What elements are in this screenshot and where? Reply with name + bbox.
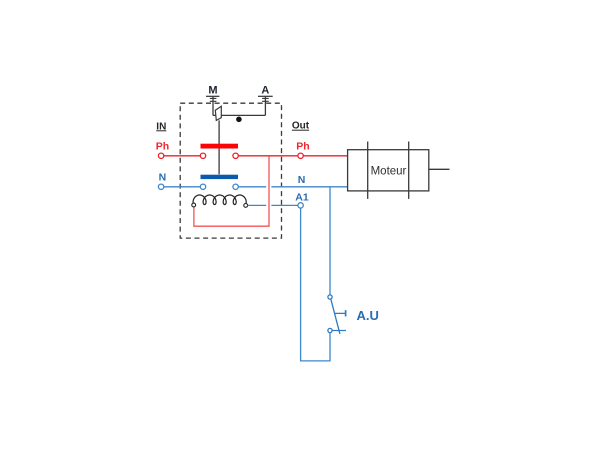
main contact N (blue bar) [201, 175, 239, 179]
wire N branch down to A.U [329, 187, 331, 295]
wire N to motor (left of crossing) [238, 186, 266, 188]
node Ph-out terminal [298, 153, 303, 158]
svg-text:A.U: A.U [357, 308, 379, 323]
mechanical link wire M-A [213, 114, 265, 116]
svg-text:Ph: Ph [296, 140, 309, 152]
wire Ph to motor [303, 155, 347, 157]
moving contact blade (parallelogram) [215, 106, 221, 120]
push button A cap line [258, 95, 273, 97]
node N contact right [233, 184, 238, 189]
node Ph-in terminal [158, 153, 163, 158]
node N contact left [200, 184, 205, 189]
motor bar 2 [408, 142, 410, 199]
wire coil to A1 (left of crossing) [248, 204, 267, 206]
svg-text:Ph: Ph [156, 140, 169, 152]
main contact Ph (red bar) [201, 144, 239, 149]
switch A.U blade [331, 299, 340, 334]
svg-text:A1: A1 [295, 191, 309, 203]
svg-text:Moteur: Moteur [371, 166, 407, 178]
node Ph contact right [233, 153, 238, 158]
node Ph contact left [200, 153, 205, 158]
node N-in terminal [158, 184, 163, 189]
switch A.U fixed contact line [332, 330, 346, 332]
contactor enclosure (dashed box) [180, 103, 281, 238]
svg-text:IN: IN [156, 121, 166, 132]
wire Ph branch to coil [194, 156, 269, 226]
push button M ticks [210, 97, 217, 99]
switch A.U upper node [328, 295, 332, 299]
wire Ph-in [164, 155, 201, 157]
coil KM1 loops [193, 195, 246, 205]
wire A.U return loop [301, 208, 330, 361]
switch A.U actuator [335, 310, 346, 316]
contactor actuator wire (vertical) [218, 120, 220, 174]
wire N-in [164, 186, 201, 188]
coil left terminal node [192, 203, 196, 207]
motor bar 1 [367, 142, 369, 199]
svg-text:N: N [159, 171, 167, 183]
push button M stem wire [212, 97, 214, 116]
switch A.U lower node [328, 328, 332, 332]
svg-text:N: N [298, 174, 306, 186]
node A1 terminal [298, 203, 303, 208]
wire Ph-out [238, 155, 298, 157]
svg-text:A: A [261, 85, 269, 97]
svg-text:M: M [208, 85, 217, 97]
push button M cap line [206, 95, 219, 97]
svg-text:Out: Out [292, 121, 310, 132]
push button A ticks [262, 97, 269, 99]
coil right terminal node [244, 204, 248, 208]
push button A stem wire [264, 97, 266, 116]
junction dot on link [236, 117, 242, 123]
wire motor output [429, 168, 450, 170]
motor M1 box [348, 150, 429, 191]
wire N to motor (right of crossing) [271, 186, 347, 188]
wire coil to A1 (right of crossing) [271, 204, 298, 206]
